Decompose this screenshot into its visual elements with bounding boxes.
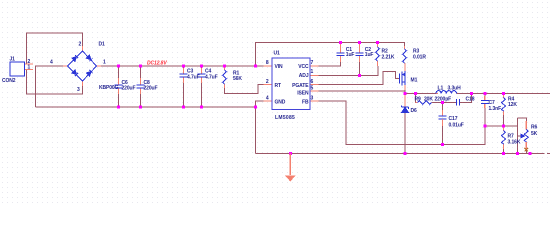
- pin stub R1 bottom: [224, 84, 226, 88]
- wire VIN tee up to top-right rail: [256, 43, 405, 67]
- svg-text:VCC: VCC: [298, 64, 309, 70]
- svg-text:L1: L1: [438, 86, 444, 92]
- wire R9 branch drop: [416, 94, 418, 103]
- wire wiper/ground vertical: [517, 118, 519, 153]
- diode D6 schottky: [402, 106, 409, 113]
- pin stub R6 bottom: [525, 142, 527, 150]
- svg-text:220uF: 220uF: [144, 86, 158, 92]
- wire R4 top lead from rail: [503, 94, 505, 98]
- svg-text:M1: M1: [411, 78, 418, 84]
- wire C4 leads: [201, 66, 203, 107]
- wire GND pin to rail corner: [256, 101, 264, 107]
- pin stub J1 pin2: [25, 63, 34, 65]
- wire MOSFET drain to switch node: [404, 90, 406, 94]
- svg-text:1: 1: [103, 60, 106, 66]
- node switch node drain: [404, 92, 407, 95]
- pin stub R9 left: [416, 102, 418, 104]
- no-connect X on pot bottom: [525, 148, 529, 152]
- component pin stubs (salmon): [25, 43, 527, 151]
- wire R9 to C18: [432, 102, 457, 104]
- resistor R2 zigzag: [376, 47, 380, 61]
- svg-text:5: 5: [311, 86, 314, 92]
- node R4 top on rail: [502, 92, 505, 95]
- wire FB long route: [319, 101, 485, 145]
- svg-text:1uF: 1uF: [346, 52, 355, 58]
- pin stub C2 bottom: [359, 56, 361, 63]
- wire pot bottom to bus: [525, 147, 527, 154]
- pin stub C4 bottom: [201, 77, 203, 83]
- wire VCC to C1 bottom: [319, 62, 341, 66]
- resistor R1 zigzag: [223, 70, 227, 84]
- wire output rail after L1: [457, 93, 550, 95]
- node R2 top rail: [376, 41, 379, 44]
- svg-text:GND: GND: [275, 100, 286, 106]
- pin stub R7 top: [503, 126, 505, 131]
- svg-text:R6: R6: [531, 125, 538, 131]
- svg-text:20K: 20K: [424, 97, 433, 103]
- pin stub bridge top: [82, 46, 84, 51]
- svg-text:J1: J1: [10, 57, 16, 63]
- wire PGATE to gate: [319, 72, 400, 85]
- node R4/R7 FB tee: [502, 125, 505, 128]
- pin stub R2 bottom: [377, 61, 379, 66]
- pin stub D6 top: [404, 94, 406, 108]
- node C7 top on rail: [483, 92, 486, 95]
- bridge diode top-left: [72, 55, 78, 61]
- node C6 bottom: [117, 106, 120, 109]
- pin stub VIN: [264, 65, 273, 67]
- pin stub bridge left: [63, 65, 68, 67]
- pin stub C8 bottom: [140, 88, 142, 94]
- pin stub C17 top: [441, 110, 443, 116]
- wire C8 leads: [140, 66, 142, 107]
- node C2 top rail: [358, 41, 361, 44]
- pin stub GND: [264, 100, 273, 102]
- svg-text:0.01uF: 0.01uF: [449, 123, 464, 129]
- pin stub C4 top: [201, 68, 203, 74]
- svg-text:0.01R: 0.01R: [413, 55, 426, 61]
- pin stub C2 top: [359, 43, 361, 54]
- junction dots (magenta): [117, 41, 532, 155]
- node C1 top rail: [339, 41, 342, 44]
- wire bridge left vertex to bottom-left rail: [36, 66, 64, 107]
- svg-text:U1: U1: [274, 51, 281, 57]
- svg-text:3.16K: 3.16K: [508, 140, 521, 146]
- resistor R9 zigzag horizontal: [418, 101, 432, 105]
- node C17 bottom on FB route: [441, 143, 444, 146]
- svg-text:56K: 56K: [233, 76, 242, 82]
- svg-text:DC12.8V: DC12.8V: [147, 61, 167, 67]
- inductor L1: [436, 91, 456, 94]
- svg-text:4.7uF: 4.7uF: [187, 75, 200, 81]
- resistor R7 zigzag: [502, 131, 506, 145]
- wire C17 bottom to FB route: [441, 122, 443, 145]
- node C17 top tee: [441, 101, 444, 104]
- wire D6 bottom to ground bus: [404, 113, 406, 154]
- wire top rail DC12.8V: [101, 65, 264, 67]
- transistor M1 PMOS: [400, 71, 406, 86]
- capacitor C8 plates: [137, 85, 145, 88]
- pin stub VCC: [310, 65, 319, 67]
- svg-text:1uF: 1uF: [365, 52, 374, 58]
- wire C7 top lead: [484, 94, 486, 99]
- potentiometer R6 wiper arrow: [521, 134, 524, 137]
- pin stub ADJ: [310, 75, 319, 77]
- svg-text:5K: 5K: [531, 131, 538, 137]
- node C3 bottom: [182, 106, 185, 109]
- pin stub C7 bottom: [484, 104, 486, 109]
- pin stub C1 bottom: [340, 56, 342, 63]
- pin stub bridge right: [97, 65, 102, 67]
- wire C6 leads: [118, 66, 120, 107]
- svg-text:2: 2: [266, 79, 269, 85]
- wire C18 to output rail: [460, 94, 472, 103]
- pin stub bridge bottom: [82, 81, 84, 86]
- pin stub R2 top: [377, 43, 379, 48]
- wire C2 bottom to ADJ line: [359, 62, 361, 76]
- pin stub ISEN: [310, 90, 319, 92]
- wire C7 bottom lead: [484, 106, 486, 126]
- node ground tap: [289, 152, 292, 155]
- wire J1 pin2 to bridge top: [27, 33, 83, 64]
- pin stub C8 top: [140, 78, 142, 85]
- wire ISEN to switch node: [319, 90, 406, 92]
- svg-text:R9: R9: [415, 97, 422, 103]
- node C4 bottom: [200, 106, 203, 109]
- wire J1 pin1 to bridge bottom: [27, 70, 83, 95]
- pin stub J1 pin1: [25, 69, 34, 71]
- pin stub C3 top: [183, 68, 185, 74]
- node GND rail corner: [254, 106, 257, 109]
- node C2 bottom ADJ: [358, 74, 361, 77]
- capacitor C18 plates vertical: [457, 99, 460, 106]
- resistor R4 zigzag: [502, 98, 506, 112]
- node R9 branch: [414, 92, 417, 95]
- svg-text:PGATE: PGATE: [292, 83, 309, 89]
- node wiper vertical on bus: [516, 152, 519, 155]
- svg-text:KBP00G: KBP00G: [99, 85, 119, 91]
- svg-text:7: 7: [311, 60, 314, 66]
- wire C17 top branch: [441, 103, 443, 115]
- wire R7 bottom to ground bus: [503, 145, 505, 154]
- bridge diode bottom-left: [72, 70, 78, 76]
- svg-text:2200pF: 2200pF: [435, 97, 452, 103]
- wires (maroon): [27, 33, 550, 154]
- bridge rectifier D1 diamond: [68, 51, 97, 81]
- pin stub RT: [264, 84, 273, 86]
- wire ADJ line to R2 bottom: [319, 66, 379, 76]
- svg-text:8: 8: [266, 60, 269, 66]
- node D6 on ground bus: [404, 152, 407, 155]
- node C6 top: [117, 65, 120, 68]
- node R1 top: [223, 65, 226, 68]
- svg-text:D1: D1: [99, 42, 106, 48]
- connector J1 box: [10, 62, 25, 76]
- svg-text:12K: 12K: [508, 102, 517, 108]
- wire switch node to L1: [405, 93, 436, 95]
- pin stub C6 top: [118, 78, 120, 85]
- svg-text:3: 3: [311, 96, 314, 102]
- pin stub R4 top: [503, 94, 505, 99]
- pin stub C1 top: [340, 43, 342, 54]
- capacitor C17 plates: [438, 116, 446, 119]
- wire R7 top lead: [503, 126, 505, 130]
- pin stub R1 top: [224, 66, 226, 70]
- capacitor C3 plates: [180, 74, 188, 77]
- wire bottom ground bus: [256, 153, 545, 155]
- wire R4 bottom to FB node: [503, 112, 505, 126]
- wire bottom bus end dash: [547, 153, 550, 155]
- node C4 top: [200, 65, 203, 68]
- pin stub R6 top: [525, 121, 527, 130]
- resistor R3 zigzag: [403, 49, 407, 63]
- components (blue): [10, 47, 528, 144]
- op IC U1 box: [272, 58, 310, 110]
- pin stub L1 left: [436, 93, 438, 95]
- ground symbol: [285, 154, 296, 182]
- pin stub C7 top: [484, 96, 486, 101]
- pin stub R3 bottom / M1 source lead: [404, 63, 406, 71]
- svg-text:FB: FB: [302, 100, 309, 106]
- node pot bottom on bus: [529, 152, 532, 155]
- capacitor C6 plates: [115, 85, 123, 88]
- bridge diode top-right: [86, 55, 92, 61]
- svg-text:1.3nF: 1.3nF: [489, 106, 502, 112]
- svg-text:ISEN: ISEN: [297, 91, 309, 97]
- svg-text:C18: C18: [466, 97, 475, 103]
- wire wiper arrow tail: [518, 135, 521, 137]
- node C18 riser on rail: [470, 92, 473, 95]
- svg-text:LM5085: LM5085: [275, 115, 295, 121]
- node C8 top: [139, 65, 142, 68]
- svg-text:4.7uF: 4.7uF: [205, 75, 218, 81]
- svg-text:C17: C17: [449, 116, 458, 122]
- pin stub C3 bottom: [183, 77, 185, 83]
- wire FB node line: [485, 125, 518, 127]
- pin stub R4 bottom: [503, 111, 505, 115]
- wire C3 leads: [183, 66, 185, 107]
- node R7 bottom on bus: [502, 152, 505, 155]
- pin stub FB: [310, 100, 319, 102]
- svg-text:4: 4: [50, 60, 53, 66]
- node C3 top: [182, 65, 185, 68]
- pin stub R3 top: [404, 46, 406, 49]
- pin stub C6 bottom: [118, 88, 120, 94]
- svg-text:4: 4: [266, 96, 269, 102]
- capacitor C7 plates: [481, 101, 489, 104]
- wire R1 bottom to RT pin: [225, 85, 264, 94]
- potentiometer R6 zigzag: [524, 130, 528, 142]
- pin stub R7 bottom: [503, 144, 505, 149]
- wire pot feed vertical: [518, 118, 527, 124]
- node C7 bottom FB corner: [483, 125, 486, 128]
- svg-text:2: 2: [79, 42, 82, 48]
- pin stub PGATE: [310, 84, 319, 86]
- pin stub C17 bottom: [441, 119, 443, 126]
- svg-text:ADJ: ADJ: [299, 73, 309, 79]
- capacitor C4 plates: [198, 74, 206, 77]
- svg-text:1: 1: [28, 65, 31, 71]
- svg-text:D6: D6: [411, 108, 418, 114]
- bridge diode bottom-right: [86, 70, 92, 76]
- svg-text:220uF: 220uF: [122, 86, 136, 92]
- svg-text:VIN: VIN: [275, 64, 284, 70]
- wire C17 gap fix: [441, 119, 443, 121]
- svg-text:RT: RT: [275, 83, 282, 89]
- svg-text:CON2: CON2: [2, 78, 16, 84]
- svg-text:3: 3: [77, 87, 80, 93]
- capacitor C1 plates: [337, 53, 345, 56]
- svg-text:6: 6: [311, 79, 314, 85]
- wire bottom-left rail: [36, 107, 256, 154]
- node VIN tee: [254, 65, 257, 68]
- svg-text:2.21K: 2.21K: [382, 55, 395, 61]
- node C8 bottom: [139, 106, 142, 109]
- pin stub M1 drain: [404, 85, 406, 90]
- svg-text:3.3uH: 3.3uH: [448, 86, 462, 92]
- capacitor C2 plates: [356, 53, 364, 56]
- svg-text:1: 1: [311, 69, 314, 75]
